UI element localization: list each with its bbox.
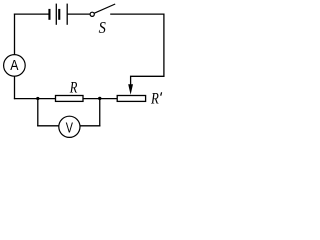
resistor R body bbox=[56, 96, 84, 102]
wire: voltmeter branch right vertical bbox=[99, 99, 101, 127]
junction node (right voltmeter tap) bbox=[98, 97, 101, 100]
wire: battery to switch pivot bbox=[67, 13, 90, 15]
wire: top-left horizontal from corner to battery bbox=[14, 13, 49, 15]
svg-text:A: A bbox=[10, 57, 19, 73]
battery cell 2 short plate bbox=[58, 9, 60, 20]
wire: left vertical, top corner down to ammeter bbox=[14, 14, 16, 55]
rheostat R' body bbox=[117, 96, 145, 102]
svg-text:R: R bbox=[150, 90, 159, 108]
svg-text:V: V bbox=[66, 119, 73, 136]
battery cell 1 long plate bbox=[55, 4, 57, 25]
switch S lever (open) bbox=[94, 4, 115, 13]
wire: voltmeter branch right horizontal bbox=[80, 125, 101, 127]
wire: ammeter to bottom-left corner bbox=[14, 76, 16, 99]
svg-text:S: S bbox=[99, 19, 106, 37]
switch S pivot circle bbox=[90, 12, 94, 16]
battery cell 2 long plate bbox=[66, 4, 68, 25]
battery cell 1 short plate bbox=[48, 9, 50, 20]
label R' prime mark bbox=[160, 92, 163, 95]
wire: voltmeter branch left vertical bbox=[37, 99, 39, 126]
ammeter A body bbox=[4, 55, 26, 77]
wire: resistor R to rheostat R' bbox=[83, 98, 117, 100]
wire: bottom-left horizontal to resistor R bbox=[14, 98, 56, 100]
wire: switch contact to top-right corner, down right side, over to wiper bbox=[110, 14, 164, 86]
wire: voltmeter branch left horizontal bbox=[37, 125, 59, 127]
svg-text:R: R bbox=[69, 79, 78, 97]
voltmeter V body bbox=[59, 116, 80, 137]
rheostat R' wiper arrowhead bbox=[128, 84, 133, 95]
junction node (left voltmeter tap) bbox=[36, 97, 39, 100]
